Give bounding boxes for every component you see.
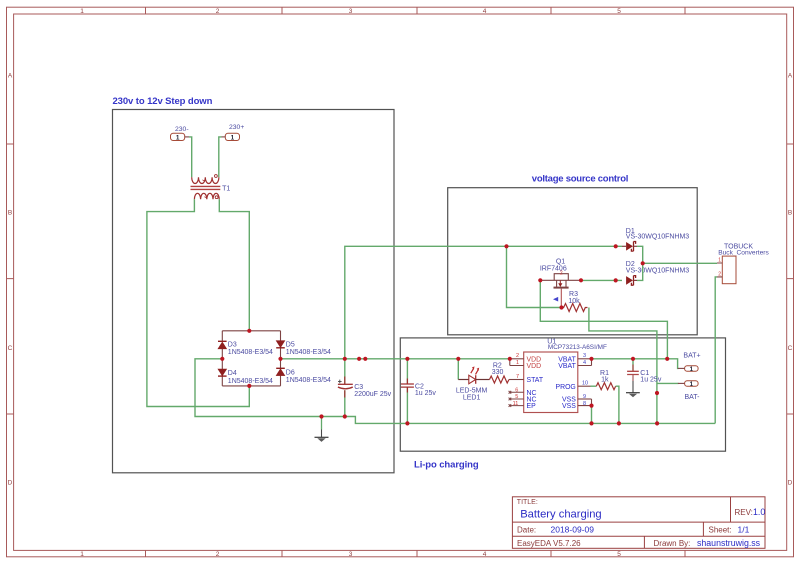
svg-text:11: 11 — [513, 401, 519, 407]
resistor R3 10k — [562, 291, 588, 312]
diode D5 — [276, 341, 331, 357]
diode D3 — [218, 341, 273, 356]
wire D1/D2 cathodes to TOBUCK pin 1 — [637, 246, 717, 280]
svg-text:D: D — [788, 479, 793, 486]
junction C3 bottom — [343, 414, 347, 418]
capacitor C3 — [338, 360, 392, 417]
pin 8 VSS — [578, 399, 592, 406]
svg-text:REV:: REV: — [735, 508, 753, 517]
svg-text:BAT-: BAT- — [684, 394, 700, 401]
junction Q1 source — [538, 278, 542, 282]
section box: Li-po charging — [400, 338, 725, 470]
pin 5 NC — [509, 398, 524, 401]
svg-text:A: A — [788, 72, 793, 79]
transistor Q1 IRF7406 — [540, 259, 581, 308]
section box: 230v to 12v Step down — [113, 96, 395, 473]
LED LED1 LED-5MM — [456, 366, 488, 401]
svg-text:Sheet:: Sheet: — [709, 525, 732, 534]
wire VBAT rail — [592, 358, 668, 360]
bridge frame wires — [222, 331, 280, 386]
svg-text:9: 9 — [583, 394, 586, 400]
junction bridge AC2 bottom node — [247, 384, 251, 388]
pin 9 VSS — [578, 398, 592, 400]
svg-text:VDD: VDD — [527, 363, 542, 370]
svg-text:6: 6 — [515, 388, 518, 394]
transformer T1 — [191, 175, 231, 200]
svg-text:1: 1 — [690, 366, 694, 373]
svg-text:VS-30WQ10FNHM3: VS-30WQ10FNHM3 — [626, 267, 690, 274]
junction D1/D2 output node — [641, 261, 645, 265]
svg-text:1: 1 — [80, 8, 84, 15]
wire 230+ to T1 primary right — [219, 137, 222, 177]
wire LED branch from +12V rail — [457, 359, 459, 380]
connector P2 230+ — [222, 124, 245, 141]
svg-text:3: 3 — [583, 353, 586, 359]
svg-text:D5: D5 — [286, 341, 295, 348]
pin 1 VDD — [510, 359, 524, 366]
pin 3 VBAT — [578, 358, 592, 360]
junction bridge DC- node — [220, 357, 224, 361]
wire 230- to T1 primary left — [189, 137, 192, 177]
IC U1 MCP73213-A6SI/MF — [509, 339, 607, 413]
svg-text:5: 5 — [617, 551, 621, 558]
junction VDD pins — [508, 357, 512, 361]
junction R1 to ground rail — [617, 421, 621, 425]
junction BAT- to ground rail — [655, 421, 659, 425]
svg-text:4: 4 — [483, 8, 487, 15]
wire bridge DC- to ground rail — [195, 359, 715, 424]
svg-text:2018-09-09: 2018-09-09 — [551, 524, 595, 534]
pin 6 NC — [509, 391, 524, 394]
svg-text:10: 10 — [582, 381, 588, 387]
svg-text:shaunstruwig.ss: shaunstruwig.ss — [697, 538, 761, 548]
junction D2 anode — [614, 278, 618, 282]
svg-text:2: 2 — [216, 551, 220, 558]
wire BAT- branch — [657, 382, 679, 384]
junction Q1 drain — [579, 278, 583, 282]
pin 4 VBAT — [578, 359, 592, 366]
junction bridge AC1 top node — [247, 329, 251, 333]
svg-text:D6: D6 — [286, 369, 295, 376]
svg-text:230v to 12v Step down: 230v to 12v Step down — [113, 96, 213, 107]
svg-text:4: 4 — [483, 551, 487, 558]
wire T1 secondary right to bridge top — [219, 199, 249, 330]
svg-text:10k: 10k — [568, 298, 580, 305]
svg-text:C: C — [8, 345, 13, 352]
svg-text:VBAT: VBAT — [558, 363, 576, 370]
svg-text:D: D — [8, 479, 13, 486]
title block — [512, 497, 765, 549]
pin 2 VDD — [510, 358, 524, 360]
diode D2 VS-30WQ10FNHM3 — [626, 261, 690, 285]
svg-text:D3: D3 — [228, 341, 237, 348]
svg-text:B: B — [8, 209, 12, 216]
wire gate branch from +12V to Q1 gate / R3 — [507, 246, 562, 307]
wire TOBUCK pin 2 down to ground rail — [715, 277, 717, 424]
junction ground branch — [319, 414, 323, 418]
svg-text:LED1: LED1 — [463, 395, 481, 402]
svg-text:Li-po charging: Li-po charging — [414, 459, 479, 470]
svg-text:STAT: STAT — [527, 377, 544, 384]
junction gate branch — [504, 244, 508, 248]
svg-text:1N5408-E3/54: 1N5408-E3/54 — [228, 378, 273, 385]
svg-text:4: 4 — [583, 360, 586, 366]
svg-text:BAT+: BAT+ — [683, 353, 700, 360]
pin 11 EP — [509, 404, 524, 407]
capacitor C2 — [401, 359, 437, 424]
svg-text:EasyEDA V5.7.26: EasyEDA V5.7.26 — [517, 539, 581, 548]
ground symbol GND1 — [315, 417, 329, 442]
svg-text:1u 25v: 1u 25v — [640, 376, 662, 383]
svg-text:1: 1 — [176, 135, 180, 142]
junction VSS to ground rail — [589, 421, 593, 425]
junction C2 bottom — [405, 421, 409, 425]
svg-text:5: 5 — [515, 394, 518, 400]
diode D1 VS-30WQ10FNHM3 — [622, 228, 689, 251]
svg-text:1.0: 1.0 — [753, 507, 765, 517]
svg-text:1: 1 — [80, 551, 84, 558]
svg-text:VSS: VSS — [562, 403, 576, 410]
wire T1 secondary left to bridge bottom — [147, 199, 249, 406]
capacitor C1 — [627, 359, 662, 384]
svg-text:1: 1 — [231, 135, 235, 142]
wire +12V rail up branch to D1 — [345, 246, 622, 358]
junction D1 anode — [614, 244, 618, 248]
wire Q1 right to D2 — [581, 279, 622, 281]
svg-text:MCP73213-A6SI/MF: MCP73213-A6SI/MF — [548, 344, 607, 351]
svg-text:IRF7406: IRF7406 — [540, 265, 567, 272]
pin 7 STAT — [509, 379, 524, 381]
svg-text:2: 2 — [718, 272, 721, 278]
svg-text:2: 2 — [560, 270, 563, 276]
svg-text:voltage source control: voltage source control — [532, 174, 628, 185]
svg-text:230-: 230- — [175, 126, 189, 133]
junction C1 top — [631, 357, 635, 361]
svg-text:1N5408-E3/54: 1N5408-E3/54 — [286, 377, 331, 384]
svg-text:PROG: PROG — [556, 384, 576, 391]
junction rail joint B — [363, 357, 367, 361]
svg-text:1: 1 — [718, 258, 721, 264]
svg-text:1: 1 — [516, 360, 519, 366]
svg-text:EP: EP — [527, 403, 537, 410]
junction BAT+ branch — [665, 357, 669, 361]
svg-text:Battery charging: Battery charging — [520, 509, 601, 521]
diode D6 — [276, 368, 331, 384]
svg-text:A: A — [8, 72, 13, 79]
connector BAT+ — [678, 353, 701, 373]
resistor R1 1k — [591, 370, 616, 390]
connector BAT- — [678, 381, 700, 401]
svg-text:T1: T1 — [222, 186, 230, 193]
junction LED branch — [456, 357, 460, 361]
junction bridge DC+ node — [278, 357, 282, 361]
diode D4 — [218, 369, 273, 385]
junction Q1 gate / R3 — [559, 305, 563, 309]
ground symbol GND2 under C1 — [626, 375, 640, 398]
svg-text:3: 3 — [349, 551, 353, 558]
wire R1 right down to ground rail — [616, 386, 619, 423]
pin 10 PROG — [578, 385, 591, 387]
wire VSS down to ground rail — [591, 406, 593, 424]
svg-text:C3: C3 — [354, 384, 363, 391]
wire Q1 left down to VBAT+ rail — [540, 280, 667, 359]
junction rail joint A — [357, 357, 361, 361]
wire BAT+ branch — [667, 359, 678, 369]
svg-text:Date:: Date: — [517, 525, 536, 534]
wire +12V rail — [281, 358, 510, 360]
junction BAT- wire joint — [655, 391, 659, 395]
svg-text:2: 2 — [216, 8, 220, 15]
svg-text:C: C — [788, 345, 793, 352]
junction VSS pins — [589, 404, 593, 408]
resistor R2 330 — [476, 362, 509, 383]
svg-text:1: 1 — [690, 381, 694, 388]
junction C3 top / +12V rail — [343, 357, 347, 361]
svg-text:1k: 1k — [601, 376, 609, 383]
svg-text:1u 25v: 1u 25v — [415, 390, 437, 397]
svg-text:Buck_Converters: Buck_Converters — [718, 249, 769, 256]
junction C2 top — [405, 357, 409, 361]
svg-text:D4: D4 — [228, 370, 237, 377]
svg-text:TITLE:: TITLE: — [517, 499, 538, 506]
svg-text:2: 2 — [516, 353, 519, 359]
svg-text:8: 8 — [583, 401, 586, 407]
svg-text:3: 3 — [349, 8, 353, 15]
svg-text:1N5408-E3/54: 1N5408-E3/54 — [286, 349, 331, 356]
svg-text:1/1: 1/1 — [738, 524, 750, 534]
svg-text:Drawn By:: Drawn By: — [654, 539, 691, 548]
connector P1 230- — [171, 126, 190, 141]
svg-text:7: 7 — [516, 374, 519, 380]
svg-text:5: 5 — [617, 8, 621, 15]
section box: voltage source control — [448, 174, 698, 335]
svg-text:B: B — [788, 209, 792, 216]
junction VBAT pins — [589, 357, 593, 361]
connector TOBUCK Buck_Converters — [717, 243, 769, 283]
svg-text:VS-30WQ10FNHM3: VS-30WQ10FNHM3 — [626, 233, 690, 240]
svg-text:1N5408-E3/54: 1N5408-E3/54 — [228, 349, 273, 356]
wire R3 right to BAT- vertical — [589, 308, 657, 424]
svg-text:2200uF 25v: 2200uF 25v — [354, 391, 391, 398]
svg-text:230+: 230+ — [229, 124, 244, 131]
